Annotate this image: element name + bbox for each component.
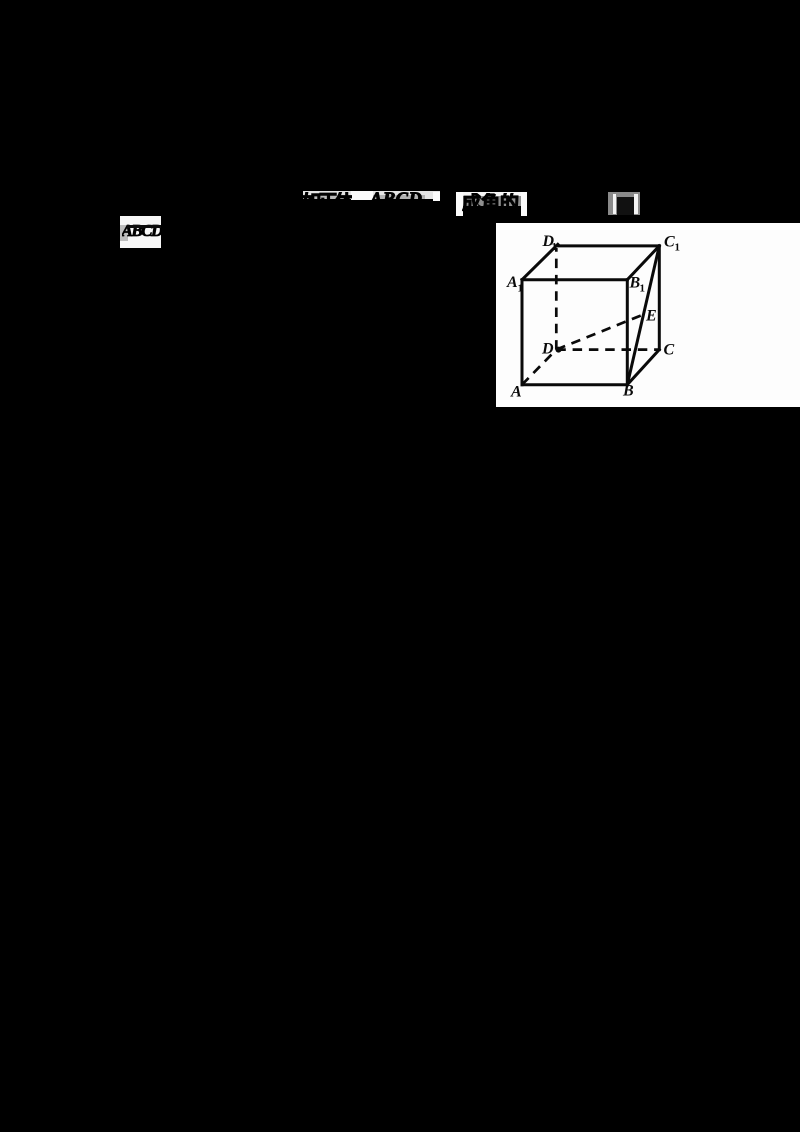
edge A-B bottom front <box>522 383 627 386</box>
figure white box <box>496 223 800 407</box>
black character tops in boxed segment 2 <box>462 193 521 215</box>
edge A-A1 left vertical <box>521 280 524 385</box>
edge A1-B1 top front <box>522 278 627 281</box>
node D dot <box>556 347 562 353</box>
edge B1-C1 top right oblique <box>627 246 659 280</box>
black character tops of text line segment 1 (letters) <box>370 187 431 214</box>
brighter sub-block of strip right end <box>433 192 441 201</box>
ABCD white patch <box>120 216 161 249</box>
svg-text:A: A <box>506 274 518 291</box>
dark bar above letters <box>127 225 161 228</box>
cube figure svg <box>496 223 800 407</box>
light gray block at left of ABCD patch <box>120 225 128 241</box>
white parenthesis bar right <box>634 194 638 214</box>
edge B-C bottom right oblique <box>627 350 659 385</box>
white parenthesis bar left <box>613 194 617 214</box>
hidden edge D-C dashed horizontal <box>556 348 659 351</box>
gray interior of boxed segment 2 <box>463 196 521 206</box>
svg-text:D: D <box>541 341 554 358</box>
edge C-C1 back right vertical <box>658 246 661 350</box>
brighter sub-block of strip (comma gap) <box>351 191 373 201</box>
black character tops of text line segment 1 (Chinese) <box>302 192 352 214</box>
svg-text:E: E <box>645 308 657 325</box>
svg-text:A: A <box>510 384 522 401</box>
svg-text:1: 1 <box>552 241 558 253</box>
dark glyph between parentheses <box>617 197 634 216</box>
svg-text:C: C <box>664 342 675 359</box>
svg-text:B: B <box>622 383 634 400</box>
grayer lower band of strip segment 1 <box>303 195 352 199</box>
svg-text:1: 1 <box>640 283 646 295</box>
hidden edge D-D1 dashed vertical <box>555 248 558 350</box>
segment D-E dashed <box>556 315 643 350</box>
edge B-B1 front right vertical <box>626 280 629 385</box>
edge A1-D1 top left oblique <box>522 244 558 279</box>
grayer lower band right part <box>373 195 425 199</box>
text-line boxed segment 2: white frame <box>456 192 463 216</box>
edge D1-C1 top back <box>556 244 659 247</box>
text-line segment 3: gray answer box with white parentheses <box>608 192 640 215</box>
text-line highlight strip segment 1 (white band over character tops) <box>303 191 440 199</box>
svg-text:C: C <box>664 234 675 251</box>
svg-text:1: 1 <box>675 242 681 254</box>
italic ABCD text <box>122 223 168 241</box>
diagonal B-C1 <box>627 246 659 385</box>
hidden edge A-D dashed <box>522 350 556 385</box>
svg-text:1: 1 <box>518 283 524 295</box>
